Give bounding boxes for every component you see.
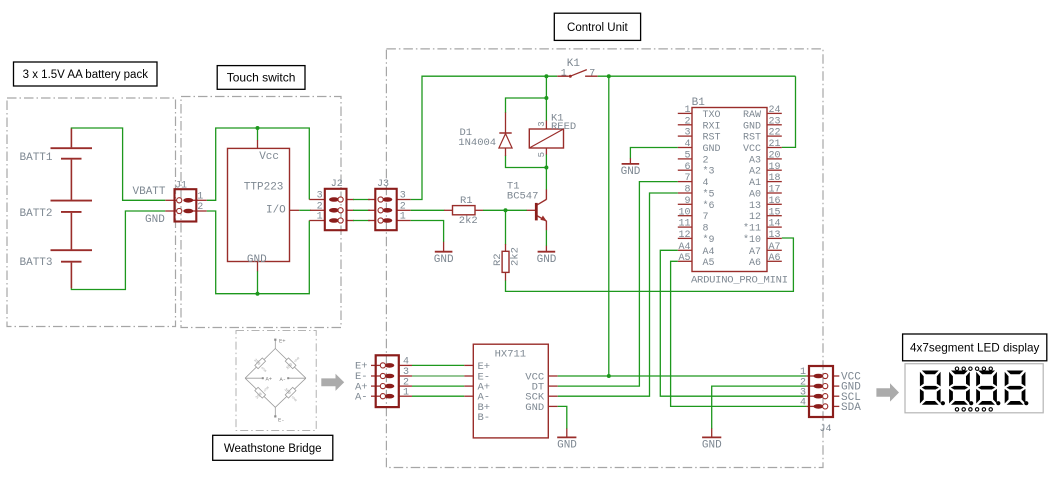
svg-text:BATT3: BATT3 — [20, 257, 53, 269]
wires load cell to HX711 — [412, 365, 464, 396]
frame battery pack — [7, 98, 176, 327]
wire D1 bottom — [506, 156, 547, 168]
svg-text:5: 5 — [537, 152, 547, 157]
bridge node dots — [262, 339, 289, 418]
svg-text:GND: GND — [557, 439, 577, 451]
svg-text:*5: *5 — [703, 189, 715, 201]
7 segment display module — [905, 364, 1043, 413]
junction relay bottom — [544, 166, 548, 170]
ground symbol HX711 — [557, 429, 577, 452]
wire R2 to arduino pin13 — [506, 238, 794, 291]
svg-text:4: 4 — [703, 178, 709, 189]
connector J2 — [309, 179, 354, 230]
svg-text:16: 16 — [769, 196, 781, 207]
junction gnd rail — [256, 292, 260, 296]
wire gnd pin rise — [257, 271, 259, 294]
svg-text:BATT2: BATT2 — [20, 208, 53, 220]
wire J3 pin3 to K1 — [411, 76, 558, 199]
svg-text:21: 21 — [769, 139, 781, 150]
connector J3 — [368, 179, 411, 230]
svg-text:*9: *9 — [703, 234, 715, 246]
svg-text:14: 14 — [769, 219, 781, 230]
ground symbol J3 — [434, 242, 454, 266]
svg-text:REED: REED — [551, 121, 576, 133]
bottom pin holes — [955, 408, 992, 411]
svg-text:A6: A6 — [749, 258, 761, 269]
svg-text:3: 3 — [537, 121, 547, 126]
svg-text:23: 23 — [769, 116, 781, 127]
svg-text:GND: GND — [434, 254, 454, 266]
wire VCC to arduino pin21 — [782, 76, 796, 147]
wire B1 pin7 to HX711 DT — [558, 182, 678, 387]
svg-text:6: 6 — [684, 162, 690, 173]
ground symbol B1 pin4 — [621, 158, 641, 178]
svg-text:TTP223: TTP223 — [244, 182, 284, 194]
label control unit callout — [554, 13, 640, 40]
battery BATT3 — [20, 250, 93, 269]
svg-text:5: 5 — [684, 151, 690, 162]
top pin holes — [955, 367, 992, 370]
frame touch switch — [181, 97, 341, 328]
wire emitter to gnd — [545, 230, 547, 246]
svg-text:VBATT: VBATT — [133, 186, 166, 198]
svg-text:22: 22 — [769, 128, 781, 139]
frame control unit — [386, 49, 823, 468]
B1 right pin names — [743, 110, 761, 269]
svg-text:A6: A6 — [769, 253, 781, 264]
svg-text:19: 19 — [769, 162, 781, 173]
label touch switch callout — [217, 66, 305, 90]
svg-text:*6: *6 — [703, 200, 715, 212]
svg-text:K1: K1 — [567, 58, 581, 70]
svg-text:Touch switch: Touch switch — [227, 71, 296, 85]
svg-text:A5: A5 — [678, 253, 690, 264]
junction base node — [504, 208, 508, 212]
svg-text:2: 2 — [197, 202, 203, 213]
switch K1 — [557, 58, 597, 80]
resistor R2 — [492, 210, 522, 280]
svg-text:ARDUINO_PRO_MINI: ARDUINO_PRO_MINI — [691, 275, 788, 287]
svg-text:17: 17 — [769, 185, 781, 196]
junction vcc rail — [256, 126, 260, 130]
B1 right pin numbers — [769, 105, 781, 264]
svg-text:J2: J2 — [331, 179, 343, 190]
bridge resistor R top-right — [282, 353, 301, 372]
block arrow J4 to display — [876, 383, 899, 401]
svg-text:13: 13 — [769, 230, 781, 241]
wire J4 pin2 to gnd — [712, 386, 807, 429]
junction K1 right — [607, 74, 611, 78]
svg-text:GND: GND — [145, 214, 165, 226]
svg-text:A-: A- — [355, 391, 368, 403]
svg-text:4: 4 — [800, 398, 806, 409]
bridge resistor R bottom-right — [282, 384, 301, 403]
wire HX711 gnd — [558, 406, 567, 429]
svg-text:12: 12 — [678, 230, 690, 241]
svg-text:1: 1 — [197, 192, 203, 203]
svg-text:8: 8 — [684, 185, 690, 196]
bridge resistor R bottom-left — [252, 382, 271, 401]
ground symbol T1 emitter — [537, 246, 557, 266]
wire D1 top — [506, 98, 547, 113]
wire VBATT net — [71, 128, 165, 200]
svg-text:18: 18 — [769, 173, 781, 184]
svg-text:1N4004: 1N4004 — [458, 137, 496, 149]
svg-text:9: 9 — [684, 196, 690, 207]
wire VCC net HX711 to J4 — [558, 375, 807, 377]
svg-text:24: 24 — [769, 105, 781, 116]
wire B1 pin8 to HX711 SCK — [558, 193, 678, 396]
connector J4 — [800, 366, 861, 435]
transistor T1 BC547 — [507, 181, 547, 231]
relay K1 REED — [529, 112, 576, 157]
svg-text:J4: J4 — [820, 424, 832, 435]
B1 left pin numbers — [678, 105, 690, 264]
svg-text:A+: A+ — [266, 376, 273, 383]
junction D1 top — [544, 96, 548, 100]
label led display callout — [903, 334, 1047, 361]
svg-text:HX711: HX711 — [495, 349, 527, 361]
IC B1 ARDUINO_PRO_MINI — [691, 97, 788, 287]
connector load cell header — [355, 355, 412, 407]
wire B1 A5 to J4 SDA — [671, 261, 807, 406]
svg-text:GND: GND — [743, 121, 761, 132]
svg-text:7: 7 — [589, 68, 595, 79]
svg-text:10: 10 — [678, 207, 690, 218]
svg-text:1: 1 — [403, 387, 409, 398]
svg-text:VCC: VCC — [743, 144, 761, 155]
svg-text:3: 3 — [400, 191, 406, 202]
wheatstone bridge drawing — [245, 340, 306, 416]
wire I/O to J2 — [299, 209, 311, 211]
svg-text:*3: *3 — [703, 166, 715, 178]
digit 3 — [976, 371, 997, 405]
svg-text:RAW: RAW — [743, 110, 761, 121]
frame wheatstone bridge — [236, 331, 316, 431]
svg-text:B-: B- — [478, 412, 491, 424]
svg-text:*11: *11 — [743, 223, 761, 235]
resistor R1 — [411, 195, 506, 227]
svg-text:R2: R2 — [492, 253, 504, 266]
svg-text:1: 1 — [561, 68, 567, 79]
svg-text:1: 1 — [684, 105, 690, 116]
svg-text:A0: A0 — [749, 190, 761, 201]
svg-text:RXI: RXI — [703, 121, 721, 132]
wire vcc pin drop — [257, 128, 259, 140]
bridge resistor R top-left — [252, 355, 271, 374]
svg-text:13: 13 — [749, 201, 761, 212]
svg-text:20: 20 — [769, 151, 781, 162]
battery series leads — [70, 128, 72, 288]
svg-text:7: 7 — [703, 212, 709, 223]
svg-text:2: 2 — [684, 116, 690, 127]
svg-text:B1: B1 — [692, 97, 706, 109]
svg-text:GND: GND — [621, 166, 641, 178]
ground symbol J4 — [702, 429, 722, 452]
svg-text:11: 11 — [678, 219, 690, 230]
battery BATT2 — [20, 201, 93, 220]
svg-text:12: 12 — [749, 212, 761, 223]
svg-text:J3: J3 — [377, 179, 389, 190]
diode D1 — [458, 113, 512, 157]
svg-text:A2: A2 — [749, 167, 761, 178]
wire B1 pin4 to gnd — [630, 148, 677, 159]
svg-text:15: 15 — [769, 207, 781, 218]
svg-text:GND: GND — [247, 254, 267, 266]
svg-text:A4: A4 — [703, 247, 715, 258]
IC TTP223 — [228, 140, 300, 271]
svg-text:8: 8 — [703, 224, 709, 235]
connector J1 — [165, 180, 207, 221]
wire J3 pin1 to gnd — [411, 221, 444, 243]
wire B1 A4 to J4 SCL — [660, 250, 806, 396]
svg-text:4: 4 — [684, 139, 690, 150]
B1 left pin stubs — [678, 113, 692, 261]
B1 right pin stubs — [767, 113, 782, 261]
svg-text:A-: A- — [280, 376, 287, 383]
svg-text:E+: E+ — [279, 338, 286, 345]
svg-text:GND: GND — [525, 402, 544, 414]
wire relay top branch — [545, 76, 547, 121]
bridge net labels — [266, 338, 287, 424]
B1 left pin names — [703, 110, 721, 269]
svg-text:A7: A7 — [769, 242, 781, 253]
svg-text:RST: RST — [703, 133, 721, 144]
svg-text:4x7segment LED display: 4x7segment LED display — [910, 342, 1039, 355]
svg-text:3: 3 — [684, 128, 690, 139]
wire touch GND rail — [207, 211, 309, 294]
digit 2 — [949, 371, 970, 405]
svg-text:3 x 1.5V AA battery pack: 3 x 1.5V AA battery pack — [23, 69, 149, 81]
svg-text:R1: R1 — [460, 195, 473, 207]
junction VCC — [607, 374, 611, 378]
svg-text:2k2: 2k2 — [510, 247, 522, 266]
svg-text:2k2: 2k2 — [459, 215, 478, 227]
IC HX711 — [464, 344, 558, 438]
label weathstone bridge callout — [213, 435, 333, 460]
label battery pack callout — [14, 62, 158, 86]
wire touch VCC rail — [207, 128, 309, 200]
svg-text:4: 4 — [403, 357, 409, 368]
svg-text:3: 3 — [317, 191, 323, 202]
svg-text:TXO: TXO — [703, 110, 721, 121]
svg-text:7: 7 — [684, 173, 690, 184]
svg-text:E-: E- — [278, 417, 285, 424]
svg-text:*10: *10 — [743, 234, 761, 246]
decimal points — [941, 401, 945, 405]
svg-text:RST: RST — [743, 133, 761, 144]
svg-text:A4: A4 — [678, 242, 690, 253]
svg-text:A7: A7 — [749, 247, 761, 258]
digit 4 — [1005, 371, 1026, 405]
svg-text:GND: GND — [702, 439, 722, 451]
svg-text:Vcc: Vcc — [259, 151, 279, 163]
battery BATT1 — [20, 148, 93, 164]
wire VCC vertical drop — [608, 76, 610, 376]
wire base to T1 — [506, 209, 528, 211]
svg-text:BC547: BC547 — [507, 191, 539, 203]
wire K1 to VCC rail — [598, 75, 796, 77]
digit 1 — [920, 371, 941, 405]
svg-text:Weathstone Bridge: Weathstone Bridge — [224, 443, 322, 455]
svg-text:BATT1: BATT1 — [20, 152, 53, 164]
svg-text:J1: J1 — [175, 180, 187, 191]
svg-text:A5: A5 — [703, 258, 715, 269]
svg-text:GND: GND — [537, 254, 557, 266]
svg-text:I/O: I/O — [266, 205, 286, 217]
svg-text:Control Unit: Control Unit — [567, 22, 629, 34]
svg-text:A1: A1 — [749, 178, 761, 189]
junction K1 left — [544, 74, 548, 78]
svg-text:SDA: SDA — [841, 402, 861, 414]
block arrow bridge to connector — [321, 374, 344, 391]
wire GND net battery — [71, 211, 165, 290]
svg-text:1: 1 — [400, 212, 406, 223]
svg-text:1: 1 — [317, 212, 323, 223]
wire relay to T1 collector — [545, 155, 547, 190]
wires J2 to J3 — [353, 200, 370, 221]
svg-text:2: 2 — [703, 155, 709, 166]
svg-text:GND: GND — [703, 144, 721, 155]
svg-text:A3: A3 — [749, 155, 761, 166]
